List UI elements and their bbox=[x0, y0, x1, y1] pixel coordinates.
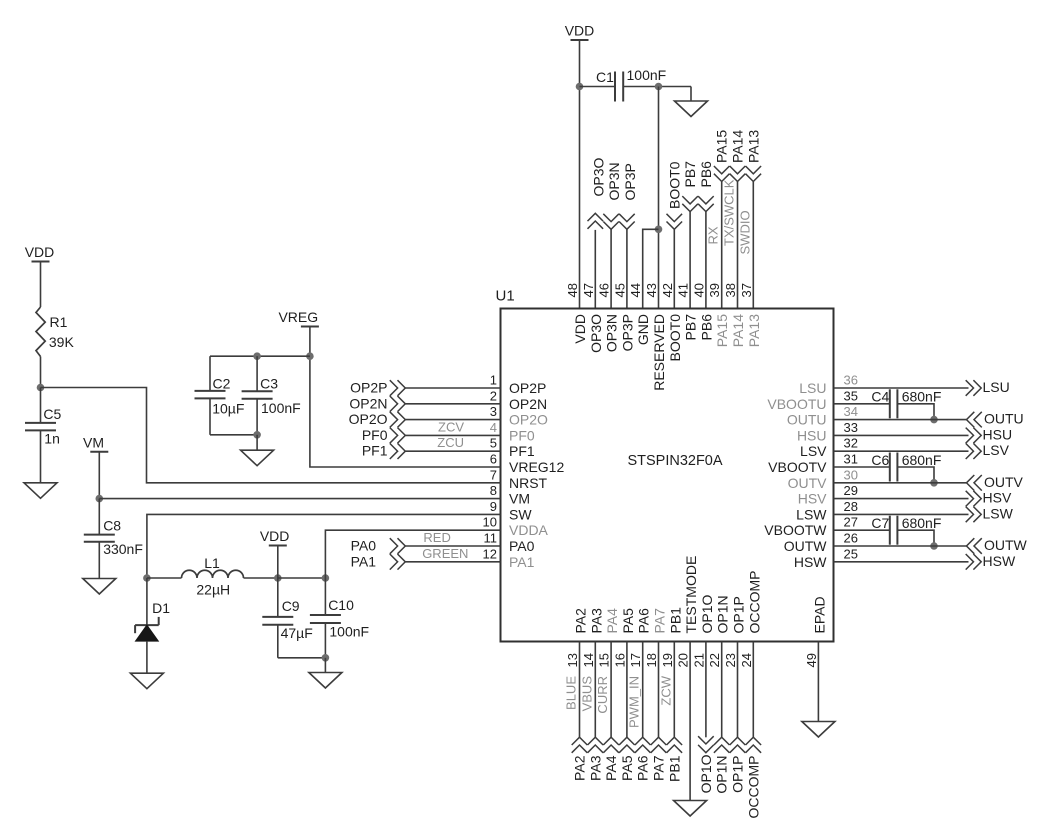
svg-text:ZCW: ZCW bbox=[658, 675, 673, 705]
wire L1 left lead bbox=[147, 577, 182, 579]
svg-text:PA3: PA3 bbox=[588, 608, 604, 634]
svg-text:OUTU: OUTU bbox=[787, 412, 827, 428]
svg-text:BOOT0: BOOT0 bbox=[666, 161, 682, 209]
svg-text:OP3P: OP3P bbox=[622, 163, 638, 200]
svg-text:27: 27 bbox=[844, 515, 858, 530]
svg-text:PB7: PB7 bbox=[683, 314, 699, 341]
svg-text:U1: U1 bbox=[496, 288, 515, 305]
svg-text:21: 21 bbox=[691, 653, 706, 667]
svg-text:31: 31 bbox=[844, 452, 858, 467]
svg-text:46: 46 bbox=[597, 283, 612, 297]
svg-text:PB6: PB6 bbox=[698, 314, 714, 341]
svg-text:LSW: LSW bbox=[983, 505, 1014, 521]
svg-text:VDDA: VDDA bbox=[509, 522, 549, 538]
svg-text:26: 26 bbox=[844, 531, 858, 546]
svg-text:OP1P: OP1P bbox=[731, 596, 747, 633]
svg-text:PB7: PB7 bbox=[682, 161, 698, 188]
svg-text:C9: C9 bbox=[282, 598, 300, 614]
svg-text:RX: RX bbox=[706, 226, 721, 244]
svg-text:ZCU: ZCU bbox=[437, 435, 464, 450]
capacitor C7 (bootstrap W) bbox=[834, 529, 890, 531]
node RESERVED-GND junction bbox=[655, 226, 663, 234]
svg-text:VM: VM bbox=[83, 434, 104, 450]
ground (EPAD) bbox=[802, 722, 835, 738]
svg-text:2: 2 bbox=[490, 388, 497, 403]
port OP1N pin 22 bbox=[721, 642, 723, 738]
port OUTU pin 34 bbox=[834, 419, 967, 421]
svg-text:10: 10 bbox=[483, 515, 497, 530]
svg-text:47µF: 47µF bbox=[281, 625, 313, 641]
wire VDD symbol to node bbox=[277, 546, 279, 579]
svg-text:11: 11 bbox=[484, 531, 498, 546]
svg-text:PA0: PA0 bbox=[351, 538, 377, 554]
svg-text:OP3O: OP3O bbox=[588, 314, 604, 353]
wire VDD to pin 48 bbox=[579, 40, 581, 309]
capacitor C5 bbox=[40, 388, 42, 423]
svg-text:39K: 39K bbox=[49, 334, 75, 350]
wire EPAD pin 49 to ground bbox=[817, 642, 819, 722]
power VDD (middle) bbox=[269, 545, 287, 547]
svg-text:29: 29 bbox=[844, 483, 858, 498]
wire C2/C3 bottom rail bbox=[210, 434, 257, 436]
svg-text:L1: L1 bbox=[204, 555, 220, 571]
wire GND pin 44 stub bbox=[643, 229, 659, 308]
svg-text:OP1N: OP1N bbox=[715, 595, 731, 633]
wire to ground bbox=[324, 658, 326, 673]
svg-text:PA5: PA5 bbox=[620, 608, 636, 634]
svg-text:R1: R1 bbox=[50, 314, 68, 330]
svg-text:16: 16 bbox=[612, 653, 627, 667]
node SW-L1-D1 junction bbox=[143, 574, 151, 582]
node VM junction bbox=[96, 495, 104, 503]
diode D1 (zener) bbox=[146, 578, 148, 625]
wire C2C3 to ground bbox=[256, 435, 258, 450]
svg-text:HSW: HSW bbox=[794, 554, 827, 570]
svg-text:43: 43 bbox=[644, 283, 659, 297]
svg-text:680nF: 680nF bbox=[902, 515, 942, 531]
power VREG bbox=[301, 326, 319, 328]
capacitor C3 bbox=[256, 356, 258, 391]
svg-text:OCCOMP: OCCOMP bbox=[745, 756, 761, 819]
svg-text:PA1: PA1 bbox=[509, 554, 535, 570]
svg-text:PA6: PA6 bbox=[636, 608, 652, 634]
svg-text:BLUE: BLUE bbox=[564, 676, 579, 710]
svg-text:47: 47 bbox=[581, 283, 596, 297]
svg-text:OP2P: OP2P bbox=[350, 380, 387, 396]
svg-text:45: 45 bbox=[612, 283, 627, 297]
port PA6 pin 17 bbox=[642, 642, 644, 738]
port PA1 pin 12 bbox=[405, 561, 500, 563]
wire VDD to R1 bbox=[40, 262, 42, 308]
svg-text:PA13: PA13 bbox=[745, 130, 761, 163]
svg-text:LSU: LSU bbox=[983, 379, 1010, 395]
svg-text:PB6: PB6 bbox=[698, 161, 714, 188]
wire NRST net to pin 7 bbox=[41, 388, 501, 483]
svg-text:PA1: PA1 bbox=[351, 553, 377, 569]
wire VM symbol to node bbox=[98, 452, 100, 499]
svg-text:1: 1 bbox=[490, 373, 497, 388]
svg-text:34: 34 bbox=[844, 404, 858, 419]
wire VREG to pin 6 VREG12 bbox=[310, 327, 501, 468]
port HSU pin 33 bbox=[834, 434, 969, 436]
wire TESTMODE pin 20 to ground bbox=[689, 642, 691, 801]
svg-text:C1: C1 bbox=[596, 69, 614, 85]
svg-text:ZCV: ZCV bbox=[438, 419, 464, 434]
svg-text:D1: D1 bbox=[152, 600, 170, 616]
svg-text:22: 22 bbox=[707, 653, 722, 667]
node C9C10 ground junction bbox=[322, 654, 330, 662]
svg-text:100nF: 100nF bbox=[261, 400, 301, 416]
port PA3 pin 14 bbox=[594, 642, 596, 738]
svg-text:41: 41 bbox=[676, 283, 691, 297]
svg-text:VDD: VDD bbox=[25, 244, 55, 260]
svg-text:STSPIN32F0A: STSPIN32F0A bbox=[627, 453, 722, 469]
capacitor C4 (bootstrap U) bbox=[834, 403, 890, 405]
ground (C1) bbox=[675, 101, 708, 117]
svg-text:PA4: PA4 bbox=[603, 755, 619, 781]
svg-text:17: 17 bbox=[628, 653, 643, 667]
svg-text:OP1P: OP1P bbox=[730, 756, 746, 793]
svg-text:HSW: HSW bbox=[983, 553, 1016, 569]
svg-text:OP2N: OP2N bbox=[509, 396, 547, 412]
node VDD-C1 junction bbox=[576, 83, 584, 91]
svg-text:PA13: PA13 bbox=[746, 314, 762, 347]
wire C1 left lead bbox=[580, 86, 616, 88]
svg-text:LSV: LSV bbox=[983, 442, 1010, 458]
svg-text:28: 28 bbox=[844, 499, 858, 514]
svg-text:PA0: PA0 bbox=[509, 538, 535, 554]
port LSV pin 32 bbox=[834, 450, 969, 452]
svg-text:PA7: PA7 bbox=[652, 608, 668, 634]
svg-text:48: 48 bbox=[565, 283, 580, 297]
svg-text:33: 33 bbox=[844, 420, 858, 435]
svg-text:PA5: PA5 bbox=[619, 755, 635, 781]
ground (D1) bbox=[130, 673, 163, 689]
svg-text:PF0: PF0 bbox=[509, 427, 535, 443]
svg-text:PB1: PB1 bbox=[667, 607, 683, 634]
svg-text:6: 6 bbox=[490, 452, 497, 467]
node C10-VDDA junction bbox=[322, 574, 330, 582]
port OP3P pin 45 bbox=[626, 229, 628, 308]
svg-text:OP2O: OP2O bbox=[349, 411, 388, 427]
svg-text:40: 40 bbox=[691, 283, 706, 297]
wire VDD node to C10 node bbox=[278, 577, 326, 579]
svg-text:PF0: PF0 bbox=[362, 427, 388, 443]
power VDD (top) bbox=[571, 39, 589, 41]
capacitor C1 bbox=[614, 72, 616, 102]
svg-text:C4: C4 bbox=[871, 389, 889, 405]
port OP3O pin 47 bbox=[594, 230, 596, 309]
svg-text:SW: SW bbox=[509, 506, 532, 522]
wire C1 right lead bbox=[623, 86, 691, 88]
svg-text:19: 19 bbox=[660, 653, 675, 667]
svg-text:OP3P: OP3P bbox=[619, 314, 635, 351]
port HSW pin 25 bbox=[834, 561, 969, 563]
svg-text:OP1O: OP1O bbox=[699, 594, 715, 633]
svg-text:VREG12: VREG12 bbox=[509, 459, 564, 475]
port PA0 pin 11 bbox=[405, 545, 500, 547]
svg-text:GREEN: GREEN bbox=[422, 546, 468, 561]
svg-text:TX/SWCLK: TX/SWCLK bbox=[722, 179, 737, 246]
port PA13 pin 37 with net SWDIO bbox=[752, 182, 754, 309]
svg-text:42: 42 bbox=[660, 283, 675, 297]
port PB6 pin 40 bbox=[705, 212, 707, 309]
port OP2P pin 1 bbox=[405, 387, 500, 389]
svg-text:330nF: 330nF bbox=[103, 541, 143, 557]
port OP1O pin 21 bbox=[705, 642, 707, 738]
port PA7 pin 18 bbox=[658, 642, 660, 738]
svg-text:8: 8 bbox=[490, 483, 497, 498]
port PB1 pin 19 bbox=[673, 642, 675, 738]
svg-text:VBUS: VBUS bbox=[579, 676, 594, 712]
svg-text:PA14: PA14 bbox=[730, 130, 746, 163]
svg-text:44: 44 bbox=[628, 283, 643, 297]
port PA5 pin 16 bbox=[626, 642, 628, 738]
svg-text:OUTW: OUTW bbox=[984, 537, 1028, 553]
svg-text:OP2P: OP2P bbox=[509, 380, 546, 396]
svg-text:PA14: PA14 bbox=[730, 314, 746, 347]
svg-text:C3: C3 bbox=[260, 376, 278, 392]
svg-text:32: 32 bbox=[844, 436, 858, 451]
svg-text:VBOOTU: VBOOTU bbox=[767, 396, 826, 412]
svg-text:PA6: PA6 bbox=[635, 755, 651, 781]
svg-text:35: 35 bbox=[844, 388, 858, 403]
svg-text:RED: RED bbox=[423, 530, 450, 545]
svg-text:OP2N: OP2N bbox=[349, 395, 387, 411]
svg-text:1n: 1n bbox=[44, 430, 60, 446]
svg-text:20: 20 bbox=[676, 653, 691, 667]
svg-text:PB1: PB1 bbox=[666, 755, 682, 782]
svg-text:HSV: HSV bbox=[983, 490, 1012, 506]
svg-text:24: 24 bbox=[739, 653, 754, 667]
svg-text:18: 18 bbox=[644, 653, 659, 667]
svg-text:5: 5 bbox=[490, 436, 497, 451]
svg-text:38: 38 bbox=[723, 283, 738, 297]
port OP2O pin 3 bbox=[405, 419, 500, 421]
svg-text:TESTMODE: TESTMODE bbox=[683, 556, 699, 634]
svg-text:OP3N: OP3N bbox=[604, 314, 620, 352]
port LSW pin 28 bbox=[834, 513, 969, 515]
svg-text:OUTV: OUTV bbox=[788, 475, 828, 491]
svg-text:NRST: NRST bbox=[509, 475, 548, 491]
svg-text:HSV: HSV bbox=[798, 491, 827, 507]
ground (C5) bbox=[24, 483, 57, 499]
svg-text:PF1: PF1 bbox=[509, 443, 535, 459]
svg-text:4: 4 bbox=[490, 420, 497, 435]
node C2C3 ground junction bbox=[253, 431, 261, 439]
port HSV pin 29 bbox=[834, 498, 969, 500]
port PA4 pin 15 bbox=[610, 642, 612, 738]
svg-text:14: 14 bbox=[581, 653, 596, 667]
svg-text:PA15: PA15 bbox=[714, 130, 730, 163]
svg-text:100nF: 100nF bbox=[627, 67, 667, 83]
port OCCOMP pin 24 bbox=[752, 642, 754, 738]
power VDD (top left) bbox=[32, 261, 50, 263]
svg-text:13: 13 bbox=[565, 653, 580, 667]
svg-text:680nF: 680nF bbox=[902, 389, 942, 405]
ground (C9/C10) bbox=[309, 673, 342, 689]
svg-text:VREG: VREG bbox=[278, 309, 318, 325]
svg-text:PA3: PA3 bbox=[587, 755, 603, 781]
svg-text:39: 39 bbox=[707, 283, 722, 297]
wire RESERVED net vertical bbox=[658, 87, 660, 309]
capacitor C6 (bootstrap V) bbox=[834, 466, 890, 468]
svg-text:25: 25 bbox=[844, 546, 858, 561]
svg-text:OUTV: OUTV bbox=[984, 474, 1024, 490]
svg-text:30: 30 bbox=[844, 467, 858, 482]
wire C1 to ground bbox=[690, 87, 692, 102]
wire VDDA net to pin 10 bbox=[325, 530, 500, 578]
svg-text:OP2O: OP2O bbox=[509, 412, 548, 428]
port PA2 pin 13 bbox=[579, 642, 581, 738]
svg-text:HSU: HSU bbox=[797, 427, 827, 443]
wire C2/C3 top rail bbox=[210, 355, 310, 357]
port PA15 pin 39 with net RX bbox=[721, 182, 723, 309]
inductor L1 bbox=[182, 570, 244, 578]
node C1-GND junction bbox=[655, 83, 663, 91]
wire VM net to pin 8 bbox=[99, 498, 500, 500]
wire C9/C10 bottom rail bbox=[278, 657, 326, 659]
svg-text:PA15: PA15 bbox=[714, 314, 730, 347]
svg-text:SWDIO: SWDIO bbox=[737, 210, 752, 254]
svg-text:OUTW: OUTW bbox=[784, 538, 828, 554]
power VM bbox=[90, 451, 108, 453]
svg-text:BOOT0: BOOT0 bbox=[667, 314, 683, 362]
svg-text:100nF: 100nF bbox=[329, 624, 369, 640]
node VDD-C9 junction bbox=[274, 574, 282, 582]
svg-text:23: 23 bbox=[723, 653, 738, 667]
svg-text:OCCOMP: OCCOMP bbox=[746, 571, 762, 634]
port OP3N pin 46 bbox=[610, 229, 612, 308]
svg-text:PWM_IN: PWM_IN bbox=[627, 676, 642, 728]
svg-text:PA2: PA2 bbox=[573, 608, 589, 634]
svg-text:LSW: LSW bbox=[796, 506, 827, 522]
svg-text:OP1O: OP1O bbox=[698, 754, 714, 793]
port OP2N pin 2 bbox=[405, 403, 500, 405]
node C3 top junction bbox=[253, 352, 261, 360]
svg-text:OP1N: OP1N bbox=[714, 756, 730, 794]
svg-text:VDD: VDD bbox=[565, 23, 595, 39]
port OUTW pin 26 bbox=[834, 545, 967, 547]
svg-text:LSV: LSV bbox=[800, 443, 827, 459]
svg-text:22µH: 22µH bbox=[196, 581, 230, 597]
ground (C8) bbox=[83, 579, 116, 595]
svg-text:VM: VM bbox=[509, 491, 530, 507]
svg-text:VBOOTW: VBOOTW bbox=[764, 522, 827, 538]
port OP1P pin 23 bbox=[737, 642, 739, 738]
capacitor C9 bbox=[277, 578, 279, 617]
port OUTV pin 30 bbox=[834, 482, 967, 484]
svg-text:PF1: PF1 bbox=[362, 443, 388, 459]
svg-text:7: 7 bbox=[490, 467, 497, 482]
svg-text:C5: C5 bbox=[43, 406, 61, 422]
svg-text:C7: C7 bbox=[871, 515, 889, 531]
resistor R1 bbox=[36, 307, 45, 357]
capacitor C8 bbox=[98, 499, 100, 535]
svg-text:C10: C10 bbox=[328, 597, 354, 613]
svg-text:3: 3 bbox=[490, 404, 497, 419]
svg-text:OP3N: OP3N bbox=[606, 162, 622, 200]
port PA14 pin 38 with net TX/SWCLK bbox=[737, 182, 739, 309]
svg-text:OUTU: OUTU bbox=[984, 411, 1024, 427]
svg-text:12: 12 bbox=[483, 546, 497, 561]
ground (C2/C3) bbox=[241, 450, 274, 466]
svg-text:EPAD: EPAD bbox=[811, 596, 827, 633]
svg-text:CURR: CURR bbox=[595, 676, 610, 714]
svg-text:LSU: LSU bbox=[799, 380, 826, 396]
svg-text:RESERVED: RESERVED bbox=[651, 314, 667, 391]
capacitor C10 bbox=[324, 578, 326, 615]
svg-text:C8: C8 bbox=[103, 518, 121, 534]
port BOOT0 pin 42 bbox=[673, 229, 675, 308]
svg-text:PA2: PA2 bbox=[572, 755, 588, 781]
port PF1 pin 5 bbox=[405, 450, 500, 452]
svg-text:9: 9 bbox=[490, 499, 497, 514]
svg-text:PA4: PA4 bbox=[604, 608, 620, 634]
svg-text:VDD: VDD bbox=[260, 528, 290, 544]
svg-text:36: 36 bbox=[844, 373, 858, 388]
svg-text:C6: C6 bbox=[871, 452, 889, 468]
capacitor C2 bbox=[209, 356, 211, 391]
svg-text:10µF: 10µF bbox=[212, 400, 244, 416]
wire R1 to node bbox=[40, 357, 42, 388]
svg-text:VBOOTV: VBOOTV bbox=[768, 459, 827, 475]
port PF0 pin 4 bbox=[405, 434, 500, 436]
node VREG-C2C3 junction bbox=[306, 352, 314, 360]
IC U1 STSPIN32F0A body bbox=[501, 309, 834, 642]
svg-text:PA7: PA7 bbox=[651, 755, 667, 781]
node NRST RC junction bbox=[37, 384, 45, 392]
wire SW net pin 9 bbox=[147, 514, 501, 578]
ground (TESTMODE) bbox=[674, 801, 707, 817]
svg-text:37: 37 bbox=[739, 283, 754, 297]
svg-text:GND: GND bbox=[635, 314, 651, 345]
svg-text:680nF: 680nF bbox=[902, 452, 942, 468]
svg-text:OP3O: OP3O bbox=[590, 157, 606, 196]
svg-text:HSU: HSU bbox=[983, 426, 1013, 442]
svg-text:15: 15 bbox=[597, 653, 612, 667]
svg-text:C2: C2 bbox=[213, 376, 231, 392]
port LSU pin 36 bbox=[834, 387, 969, 389]
svg-text:VDD: VDD bbox=[572, 314, 588, 344]
svg-text:49: 49 bbox=[804, 653, 819, 667]
port PB7 pin 41 bbox=[689, 212, 691, 309]
wire L1 to VDD node bbox=[244, 577, 278, 579]
